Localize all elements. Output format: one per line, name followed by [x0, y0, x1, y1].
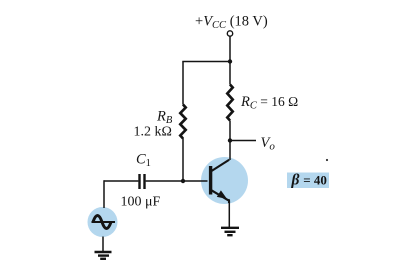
- svg-text:RC = 16 Ω: RC = 16 Ω: [240, 94, 298, 112]
- svg-text:RB: RB: [156, 109, 173, 127]
- svg-text:+VCC (18 V): +VCC (18 V): [195, 14, 268, 32]
- svg-text:Vo: Vo: [261, 135, 276, 153]
- svg-text:C1: C1: [136, 152, 151, 170]
- svg-text:100 μF: 100 μF: [121, 195, 161, 210]
- svg-text:β = 40: β = 40: [291, 172, 327, 189]
- svg-text:1.2 kΩ: 1.2 kΩ: [134, 125, 172, 140]
